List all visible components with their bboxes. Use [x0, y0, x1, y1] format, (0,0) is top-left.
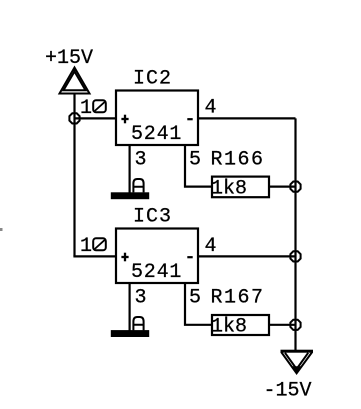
- wire +15V symbol down to junction: [73, 94, 75, 118]
- svg-text:IC3: IC3: [133, 206, 172, 229]
- plus marking inside IC2: [121, 115, 128, 124]
- resistor R167 body: [212, 315, 269, 335]
- power symbol +15V (double triangle up): [60, 68, 90, 94]
- wire left bus junction down to IC3 pin 10: [73, 118, 75, 256]
- stray mark at left edge: [0, 228, 3, 231]
- svg-text:5241: 5241: [131, 261, 182, 284]
- ground symbol (IC2): [111, 192, 149, 199]
- ground symbol (IC3): [111, 330, 149, 337]
- svg-text:1: 1: [80, 97, 92, 120]
- op-amp IC3 body: [116, 229, 198, 284]
- wire IC2 pin 5 to resistor R166: [185, 145, 212, 187]
- svg-text:-15V: -15V: [264, 380, 312, 403]
- op-amp IC2 body: [116, 91, 198, 146]
- junction node R166 / bus: [290, 182, 300, 192]
- right bus wire down to -15V: [294, 118, 296, 350]
- svg-text:1: 1: [80, 235, 92, 258]
- svg-text:5: 5: [189, 149, 201, 172]
- wire junction to IC2 pin 10: [75, 117, 117, 119]
- svg-text:4: 4: [205, 235, 217, 258]
- wire R166 to right bus: [269, 186, 296, 188]
- wire IC3 pin 4 to right bus: [198, 255, 296, 257]
- slashed zero of pin 10 (IC3): [93, 238, 106, 250]
- svg-text:1k8: 1k8: [211, 316, 247, 339]
- svg-text:5: 5: [189, 287, 201, 310]
- minus marking inside IC3: [187, 256, 192, 258]
- svg-text:3: 3: [135, 149, 147, 172]
- slashed zero of pin 10 (IC2): [93, 100, 106, 112]
- minus marking inside IC2: [187, 118, 192, 120]
- power symbol -15V (double triangle down): [281, 350, 314, 374]
- wire R167 to right bus: [269, 324, 296, 326]
- ground net label A (IC2): [133, 179, 143, 192]
- svg-text:5241: 5241: [131, 123, 182, 146]
- wire IC3 pin 5 to resistor R167: [185, 283, 212, 325]
- wire IC2 pin 4 to right bus: [198, 117, 296, 119]
- svg-text:IC2: IC2: [133, 68, 172, 91]
- wire IC3 pin 3 to ground: [129, 283, 131, 331]
- wire IC2 pin 3 to ground: [129, 145, 131, 193]
- ground net label A (IC3): [133, 317, 143, 330]
- junction node at +15V / IC2 pin 10: [69, 113, 79, 123]
- svg-text:R167: R167: [211, 287, 265, 310]
- svg-text:+15V: +15V: [45, 47, 93, 70]
- junction node IC3 pin 4 / bus: [290, 251, 300, 261]
- svg-text:1k8: 1k8: [211, 178, 247, 201]
- svg-text:R166: R166: [211, 149, 265, 172]
- resistor R166 body: [212, 177, 269, 198]
- svg-text:4: 4: [205, 97, 217, 120]
- svg-text:3: 3: [135, 287, 147, 310]
- plus marking inside IC3: [121, 253, 128, 262]
- junction node R167 / bus: [290, 320, 300, 330]
